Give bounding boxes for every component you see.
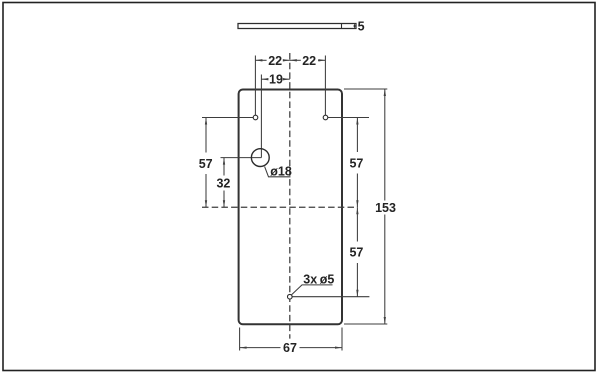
big hole (diameter 18) [251, 149, 269, 167]
svg-text:153: 153 [375, 201, 396, 215]
dimension 19: line [261, 78, 267, 80]
label ø18 leader [265, 167, 291, 177]
dimension 153: arrows [384, 89, 386, 96]
dimension 57 right bottom: line [356, 207, 358, 241]
vertical center line (dashed) [289, 53, 291, 339]
dimension 22 right: arrows [290, 59, 297, 61]
extension line plate bottom left to dim 67 [239, 328, 241, 351]
dimension 67: line [240, 347, 281, 349]
extension line plate bottom to dim 153 [344, 323, 387, 325]
svg-text:57: 57 [349, 246, 363, 260]
dimension 5 arrow up [353, 24, 355, 27]
dimension 22 left: line [255, 59, 266, 61]
extension line big hole to dim 32 [221, 157, 262, 159]
svg-text:32: 32 [216, 177, 230, 191]
dimension 57 left: line [205, 118, 207, 153]
dimension 22 right: line [290, 59, 301, 61]
svg-text:57: 57 [349, 156, 363, 170]
svg-text:5: 5 [358, 20, 365, 34]
dimension 32: arrows [223, 158, 225, 165]
svg-text:19: 19 [269, 73, 283, 87]
plate outline (front view) [239, 90, 342, 325]
svg-text:22: 22 [268, 54, 282, 68]
extension line from dim 22 to left hole [254, 56, 256, 118]
top right mounting hole [323, 115, 328, 120]
dimension 19: arrows [261, 78, 268, 80]
extension line plate top to dim 153 [344, 88, 387, 90]
label 3x ø5 leader [291, 285, 332, 295]
top left mounting hole [253, 115, 258, 120]
side view divider edge [341, 24, 343, 29]
extension line left hole to dim 57 [202, 117, 256, 119]
bottom mounting hole [288, 294, 293, 299]
dimension 5 arrow down [353, 26, 355, 29]
dimension 57 right bottom: arrows [356, 207, 358, 214]
dimension 57 left: arrows [205, 118, 207, 125]
dimension 22 left: arrows [255, 59, 262, 61]
dimension 32: line [223, 158, 225, 176]
svg-text:57: 57 [199, 157, 213, 171]
extension line from dim 19 to big hole center [260, 75, 262, 158]
extension line plate bottom right to dim 67 [341, 328, 343, 351]
svg-text:ø18: ø18 [270, 164, 292, 178]
svg-text:3x ø5: 3x ø5 [303, 272, 334, 286]
svg-text:22: 22 [302, 54, 316, 68]
horizontal center line (dashed) [202, 206, 357, 208]
dimension 67: arrows [240, 346, 247, 348]
dimension 57 right top: arrows [356, 118, 358, 125]
extension line from dim 22 to right hole [324, 56, 326, 118]
extension line right hole to dim 57 top [326, 117, 370, 119]
dimension 153: line [384, 89, 386, 201]
extension line bottom hole to dim 57 bottom [290, 296, 370, 298]
dimension 57 right top: line [356, 118, 358, 153]
svg-text:67: 67 [283, 341, 297, 355]
side view: plate thickness profile [238, 24, 356, 29]
